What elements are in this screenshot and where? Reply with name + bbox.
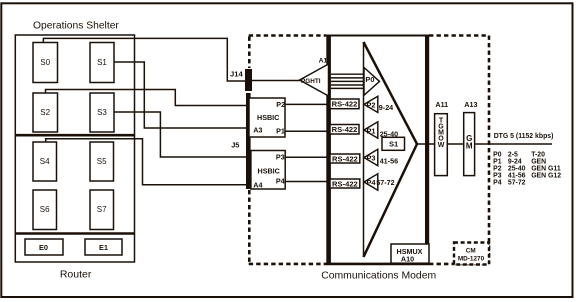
svg-text:P2: P2 bbox=[276, 100, 285, 109]
svg-text:P4: P4 bbox=[367, 178, 377, 187]
svg-text:P2: P2 bbox=[367, 101, 376, 110]
svg-text:P3: P3 bbox=[493, 173, 502, 180]
svg-text:S5: S5 bbox=[97, 157, 107, 166]
svg-text:9-24: 9-24 bbox=[379, 103, 393, 112]
svg-text:S1: S1 bbox=[97, 58, 107, 67]
svg-text:41-56: 41-56 bbox=[380, 156, 398, 165]
svg-text:RS-422: RS-422 bbox=[332, 125, 358, 134]
svg-text:T-20: T-20 bbox=[531, 152, 545, 159]
svg-text:CM: CM bbox=[466, 248, 476, 255]
svg-text:HSBIC: HSBIC bbox=[258, 167, 280, 176]
svg-text:A1: A1 bbox=[319, 57, 328, 64]
svg-text:MD-1270: MD-1270 bbox=[458, 255, 485, 262]
svg-text:A11: A11 bbox=[435, 100, 448, 109]
svg-text:Operations Shelter: Operations Shelter bbox=[33, 21, 119, 32]
svg-text:P3: P3 bbox=[367, 154, 376, 163]
svg-text:DTG 5 (1152 kbps): DTG 5 (1152 kbps) bbox=[494, 133, 554, 140]
svg-text:S0: S0 bbox=[40, 58, 50, 67]
svg-text:PGHTI: PGHTI bbox=[301, 78, 321, 85]
svg-text:P1: P1 bbox=[367, 126, 376, 135]
svg-text:S6: S6 bbox=[40, 205, 50, 214]
svg-text:P2: P2 bbox=[493, 166, 502, 173]
svg-text:M: M bbox=[466, 141, 473, 150]
svg-text:S4: S4 bbox=[40, 157, 50, 166]
svg-text:GEN: GEN bbox=[531, 159, 546, 166]
svg-text:RS-422: RS-422 bbox=[332, 154, 358, 163]
svg-text:A10: A10 bbox=[401, 254, 414, 263]
svg-text:P1: P1 bbox=[276, 126, 285, 135]
svg-text:2-5: 2-5 bbox=[508, 152, 518, 159]
svg-text:RS-422: RS-422 bbox=[332, 179, 358, 188]
svg-text:57-72: 57-72 bbox=[508, 180, 526, 187]
svg-text:GEN G12: GEN G12 bbox=[531, 173, 561, 180]
svg-text:A13: A13 bbox=[464, 100, 477, 109]
svg-text:A4: A4 bbox=[253, 181, 262, 190]
svg-text:S3: S3 bbox=[97, 108, 107, 117]
svg-text:W: W bbox=[438, 142, 445, 149]
svg-text:25-40: 25-40 bbox=[508, 166, 526, 173]
svg-text:HSBIC: HSBIC bbox=[257, 113, 279, 122]
svg-text:E0: E0 bbox=[39, 243, 48, 252]
svg-text:S2: S2 bbox=[40, 108, 50, 117]
svg-text:57-72: 57-72 bbox=[376, 178, 394, 187]
svg-text:P0: P0 bbox=[493, 152, 502, 159]
svg-text:9-24: 9-24 bbox=[508, 159, 522, 166]
svg-text:41-56: 41-56 bbox=[508, 173, 526, 180]
svg-text:Communications Modem: Communications Modem bbox=[321, 270, 436, 281]
svg-text:S7: S7 bbox=[97, 205, 107, 214]
svg-text:S1: S1 bbox=[389, 140, 398, 149]
svg-text:P1: P1 bbox=[493, 159, 502, 166]
svg-text:P4: P4 bbox=[276, 177, 285, 186]
svg-text:Router: Router bbox=[60, 269, 92, 281]
svg-text:J5: J5 bbox=[231, 140, 239, 149]
svg-text:A3: A3 bbox=[253, 126, 262, 135]
svg-text:E1: E1 bbox=[99, 243, 108, 252]
svg-text:P0: P0 bbox=[365, 75, 374, 84]
svg-text:P4: P4 bbox=[493, 180, 502, 187]
svg-text:P3: P3 bbox=[276, 153, 285, 162]
svg-text:RS-422: RS-422 bbox=[332, 100, 358, 109]
svg-text:J14: J14 bbox=[230, 70, 243, 79]
svg-text:GEN G11: GEN G11 bbox=[531, 166, 561, 173]
